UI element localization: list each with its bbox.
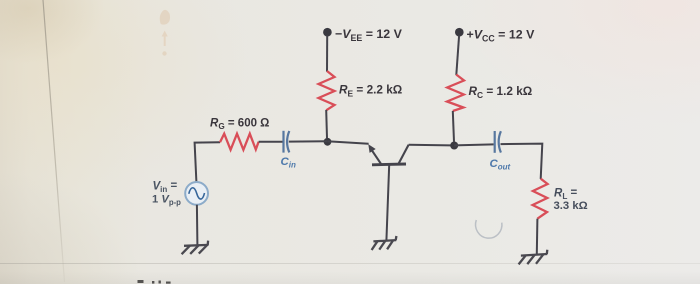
source Vin [185,182,208,205]
wire Cout to RL [501,144,543,179]
svg-text:RC = 1.2 kΩ: RC = 1.2 kΩ [469,84,533,100]
svg-text:Cin: Cin [281,156,296,170]
svg-text:RE = 2.2 kΩ: RE = 2.2 kΩ [339,83,402,99]
node emitter junction [324,138,332,146]
transistor Q1 [368,144,408,241]
svg-text:1 Vp-p: 1 Vp-p [152,194,181,208]
wire VCC to RC [456,36,459,76]
node -VEE terminal [323,28,332,37]
faint pen arc [476,220,502,238]
node +VCC terminal [455,28,464,37]
ground (RL) [519,250,548,265]
resistor RL [533,179,548,219]
wire VEE to RE [326,36,328,72]
wire collector to RC node [409,144,451,147]
wire RG to Cin [259,141,283,143]
ground (source) [182,241,209,255]
svg-text:+VCC = 12 V: +VCC = 12 V [467,27,536,43]
svg-text:Cout: Cout [490,158,511,172]
svg-text:RL =: RL = [554,187,578,201]
resistor RC [447,75,464,112]
svg-text:RG = 600 Ω: RG = 600 Ω [210,117,269,131]
bottom text fragment [138,280,171,284]
wire RC to collector node [453,111,454,142]
ground (base) [372,236,397,250]
wire RE to emitter node [325,110,328,138]
svg-text:−VEE = 12 V: −VEE = 12 V [335,27,403,43]
resistor RE [319,71,335,110]
faint highlighter mark [160,10,170,56]
capacitor Cin [284,131,290,153]
wire collector node to Cout [454,144,493,145]
svg-text:3.3 kΩ: 3.3 kΩ [554,200,588,212]
svg-text:Vin =: Vin = [153,180,178,194]
node collector junction [450,142,458,150]
wire input corner (source top to RG) [195,142,220,182]
wire RL to ground [536,219,539,254]
wire Cin to emitter node [289,140,327,142]
wire emitter node to transistor [327,141,368,143]
wire source to ground [196,205,199,245]
capacitor Cout [495,131,501,153]
resistor RG [220,134,259,150]
